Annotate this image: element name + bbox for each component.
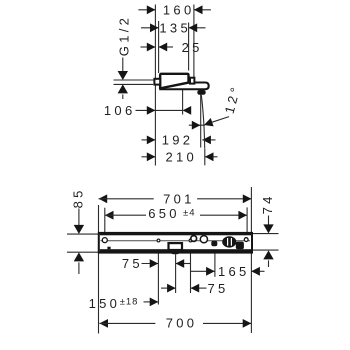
spout rear extension line bbox=[158, 21, 160, 73]
dimension 75 left bbox=[122, 256, 190, 271]
svg-text:700: 700 bbox=[166, 316, 198, 331]
svg-text:165: 165 bbox=[218, 264, 250, 279]
svg-text:74: 74 bbox=[260, 193, 275, 214]
dimension 135 bbox=[141, 21, 206, 36]
extension line left 701/700 bbox=[98, 205, 100, 334]
dimension 150 +/-18 bbox=[89, 296, 159, 311]
stream extension line 192 bbox=[200, 94, 202, 148]
select button 1 bbox=[191, 236, 197, 242]
dimension 701 bbox=[99, 191, 252, 206]
select button 2 bbox=[200, 236, 207, 243]
spout outlet step bbox=[190, 78, 194, 84]
svg-text:75: 75 bbox=[122, 256, 143, 271]
extension line right inlet 650 bbox=[246, 207, 248, 232]
svg-text:±18: ±18 bbox=[120, 296, 139, 307]
dimension 700 bbox=[99, 316, 251, 331]
svg-text:25: 25 bbox=[182, 40, 203, 55]
dimension 75 right bbox=[161, 281, 229, 296]
dimension 192 bbox=[142, 133, 216, 148]
svg-text:G1/2: G1/2 bbox=[116, 15, 131, 56]
extension line right notch bbox=[190, 242, 192, 293]
dimension 165 bbox=[191, 264, 265, 279]
dimension 160 bbox=[138, 3, 211, 18]
svg-text:12°: 12° bbox=[222, 83, 244, 115]
dimension 650 +/-4 bbox=[105, 206, 247, 221]
svg-text:±4: ±4 bbox=[183, 207, 196, 218]
extension line left inlet 650 bbox=[104, 208, 106, 233]
right small circle bbox=[244, 238, 248, 242]
dimension 25 bbox=[141, 40, 203, 55]
extension line hose outlet bbox=[157, 236, 159, 305]
svg-text:85: 85 bbox=[70, 187, 85, 208]
diverter blob bbox=[211, 241, 217, 247]
svg-text:75: 75 bbox=[207, 281, 228, 296]
svg-text:160: 160 bbox=[163, 3, 195, 18]
extension line 135 right bbox=[188, 23, 190, 71]
extension line button bbox=[214, 247, 216, 277]
left inlet circle bbox=[102, 238, 107, 243]
spout underside wedge and nozzle bbox=[160, 83, 208, 90]
dimension 106 bbox=[104, 103, 191, 118]
water stream bbox=[201, 95, 204, 149]
svg-text:150: 150 bbox=[89, 296, 121, 311]
tub spout lip bbox=[170, 249, 180, 254]
svg-text:701: 701 bbox=[163, 191, 195, 206]
left hook bump bbox=[107, 247, 110, 250]
dimension 85 left bbox=[67, 187, 100, 274]
extension line 160 right bbox=[193, 5, 195, 78]
wall line bbox=[154, 5, 156, 166]
thermostat knob bbox=[222, 236, 236, 247]
svg-text:650: 650 bbox=[148, 206, 180, 221]
right holder block bbox=[236, 242, 244, 250]
extension line spout center bbox=[175, 254, 177, 293]
right notch bbox=[189, 239, 192, 242]
svg-text:106: 106 bbox=[104, 103, 136, 118]
angle callout 12 deg bbox=[189, 83, 244, 130]
spout body bbox=[160, 74, 188, 89]
stream end extension line 210 bbox=[204, 149, 206, 166]
dimension G1/2 bbox=[114, 15, 155, 99]
extension line right end bbox=[250, 187, 252, 333]
wall mount tab G1/2 bbox=[154, 79, 160, 85]
dimension 210 bbox=[142, 150, 218, 165]
tub spout body bbox=[169, 243, 183, 250]
aerator extension line bbox=[182, 87, 184, 115]
bar body bbox=[99, 233, 252, 253]
svg-text:210: 210 bbox=[166, 150, 198, 165]
aerator nub bbox=[197, 90, 205, 95]
svg-text:135: 135 bbox=[159, 21, 191, 36]
dimension 74 right bbox=[252, 193, 278, 267]
hose outlet notch bbox=[157, 239, 160, 242]
svg-text:192: 192 bbox=[162, 133, 194, 148]
